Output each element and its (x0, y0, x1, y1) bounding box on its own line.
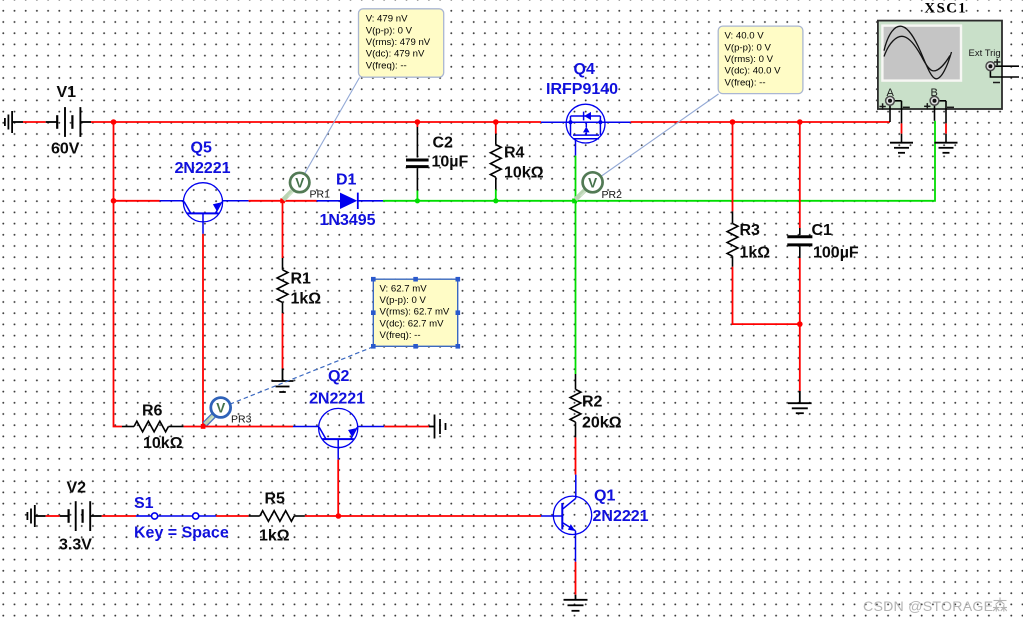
node junction C2 bottom (green) (415, 198, 420, 203)
svg-text:60V: 60V (51, 141, 80, 158)
wire Q4 gate down (green) (575, 156, 577, 201)
wire left vertical to R6 row (114, 201, 123, 427)
svg-text:V(rms): 479 nV: V(rms): 479 nV (366, 37, 431, 48)
svg-text:V2: V2 (67, 480, 87, 497)
wire S1 to R5 (216, 515, 249, 517)
svg-text:100µF: 100µF (813, 245, 859, 262)
transistor Q2 2N2221 (293, 408, 384, 459)
svg-text:Q1: Q1 (594, 488, 615, 505)
svg-text:2N2221: 2N2221 (175, 160, 231, 177)
probe leader line PR2 (601, 94, 719, 177)
svg-text:V: 62.7 mV: V: 62.7 mV (380, 283, 428, 294)
wire Q5 base down to PR3 node (202, 234, 204, 427)
svg-text:R5: R5 (265, 491, 286, 508)
svg-text:20kΩ: 20kΩ (582, 415, 622, 432)
wire PR1 node down to R1 (282, 201, 284, 258)
wire R2 to Q1 collector (575, 437, 577, 474)
node junction R3 top (730, 119, 736, 125)
probe PR3 (selected) (205, 398, 231, 425)
svg-text:C2: C2 (433, 135, 454, 152)
wire left vertical V1 junction down (113, 122, 115, 201)
svg-text:1kΩ: 1kΩ (259, 528, 290, 545)
wire D1 to C2 (green net) (383, 200, 417, 202)
svg-text:XSC1: XSC1 (925, 1, 968, 17)
svg-text:V(freq): --: V(freq): -- (725, 77, 766, 88)
probe leader line PR3 (selected, dashed) (230, 347, 374, 405)
resistor R4 (490, 122, 501, 201)
wire scope B- red segment (945, 123, 947, 133)
ground (scope B-) (935, 143, 958, 153)
svg-text:V(dc): 62.7 mV: V(dc): 62.7 mV (380, 318, 445, 329)
svg-text:Q5: Q5 (191, 140, 212, 157)
resistor R2 (570, 374, 581, 437)
ground (scope A-) (890, 143, 913, 153)
resistor R5 (249, 511, 305, 522)
svg-text:1kΩ: 1kΩ (740, 245, 771, 262)
svg-text:V1: V1 (57, 84, 77, 101)
node junction Q5 collector row (111, 198, 117, 204)
wire scope A- to ground (901, 134, 903, 143)
svg-text:10µF: 10µF (432, 154, 469, 171)
probe info box PR1 (359, 9, 444, 77)
wire V1 ground to V1 (23, 121, 46, 123)
svg-text:V(dc): 40.0 V: V(dc): 40.0 V (725, 66, 782, 77)
svg-text:CSDN @STORAGE: CSDN @STORAGE (863, 599, 993, 615)
svg-text:V(dc): 479 nV: V(dc): 479 nV (366, 49, 425, 60)
wire Q2 right to ground (384, 426, 429, 428)
ground (left of V2, rotated) (27, 505, 45, 527)
node junction V1 top (111, 119, 117, 125)
transistor Q5 2N2221 (160, 183, 249, 234)
wire R3 bottom to C1 column (733, 267, 800, 324)
svg-text:V: V (295, 176, 304, 191)
svg-text:V: V (216, 401, 225, 416)
wire Q2 base down to emitter node (337, 460, 339, 516)
svg-text:PR3: PR3 (231, 414, 252, 426)
switch S1 (136, 513, 216, 519)
wire R6 to PR3 node (184, 426, 203, 428)
wire Q1 base lead (541, 515, 554, 517)
probe PR2 (575, 172, 602, 199)
svg-text:3.3V: 3.3V (59, 537, 92, 554)
wire PR3 node to Q2 (203, 426, 293, 428)
node junction C1 bottom wire (797, 321, 803, 327)
node junction C1 top (797, 119, 803, 125)
svg-text:Ext Trig: Ext Trig (969, 48, 1001, 59)
svg-text:V(rms): 62.7 mV: V(rms): 62.7 mV (380, 307, 450, 318)
wire green PR2 node to scope B (575, 121, 936, 201)
svg-text:R3: R3 (740, 222, 761, 239)
capacitor C2 (406, 122, 429, 201)
wire Q5 emitter to PR1 node (249, 200, 283, 202)
wire scope B- to ground (945, 134, 947, 143)
svg-text:PR2: PR2 (602, 189, 623, 201)
transistor Q4 IRFP9140 (541, 104, 631, 156)
oscilloscope XSC1 (878, 1, 1019, 124)
svg-text:S1: S1 (134, 495, 154, 512)
svg-text:PR1: PR1 (310, 189, 331, 201)
svg-text:V(freq): --: V(freq): -- (380, 330, 421, 341)
wire top rail R4 to Q4 (496, 121, 541, 123)
ground (below C1) (788, 391, 812, 413)
ground (right of Q2, rotated) (429, 415, 446, 439)
diode D1 1N3495 (317, 193, 383, 209)
wire R3 top vertical (732, 122, 734, 211)
wire node to Q1 base (338, 515, 541, 517)
wire C1 top vertical (799, 122, 801, 228)
svg-text:V(p-p): 0 V: V(p-p): 0 V (380, 295, 427, 306)
svg-text:Key = Space: Key = Space (134, 525, 229, 542)
wire top rail C2 to R4 (417, 121, 495, 123)
wire R5 to Q2 emitter node (305, 515, 339, 517)
node junction C2 top (415, 119, 421, 125)
wire Q5 row red left (114, 200, 160, 202)
wire Q1 emitter down (575, 562, 577, 595)
wire R1 to ground (282, 313, 284, 368)
svg-text:V: 479 nV: V: 479 nV (366, 14, 408, 25)
svg-text:V(rms): 0 V: V(rms): 0 V (725, 54, 774, 65)
svg-text:V: 40.0 V: V: 40.0 V (725, 31, 765, 42)
ground (below Q1) (564, 595, 588, 611)
svg-text:1kΩ: 1kΩ (291, 291, 322, 308)
ground (below R1) (272, 369, 294, 393)
battery V2 (60, 501, 102, 531)
svg-text:R2: R2 (582, 394, 603, 411)
node PR1 junction (280, 198, 285, 203)
transistor Q1 2N2221 (553, 475, 591, 562)
svg-text:2N2221: 2N2221 (593, 508, 649, 525)
probe info box PR2 (718, 26, 803, 94)
ground (left of V1, rotated) (5, 111, 23, 133)
resistor R3 (727, 211, 738, 266)
wire top rail V1 to C2 (91, 121, 417, 123)
svg-text:2N2221: 2N2221 (309, 391, 365, 408)
wire green down to R2 (575, 201, 577, 374)
wire green C2 to R4 (417, 200, 495, 202)
svg-text:V(p-p): 0 V: V(p-p): 0 V (366, 25, 413, 36)
svg-text:D1: D1 (336, 172, 357, 189)
svg-text:R1: R1 (291, 271, 312, 288)
node junction Q2 emitter / R5 / Q1 base (336, 513, 342, 519)
wire C1 bottom to ground (799, 258, 801, 391)
svg-text:V: V (588, 176, 597, 191)
wire scope A- red segment (901, 123, 903, 133)
node PR3 junction (201, 424, 206, 429)
wire top rail Q4 to R3 (631, 121, 733, 123)
probe info box PR3 (selected) (371, 277, 460, 349)
svg-text:10kΩ: 10kΩ (504, 165, 544, 182)
svg-text:R6: R6 (142, 403, 163, 420)
wire top rail R3 to C1 (733, 121, 800, 123)
capacitor C1 (787, 228, 812, 258)
wire top rail C1 to scope A (800, 121, 890, 123)
resistor R1 (277, 258, 288, 313)
watermark CJK glyph (993, 598, 1007, 612)
battery V1 (46, 107, 91, 137)
svg-text:V(p-p): 0 V: V(p-p): 0 V (725, 42, 772, 53)
svg-text:10kΩ: 10kΩ (143, 435, 183, 452)
probe PR1 (283, 173, 309, 200)
svg-text:R4: R4 (504, 145, 525, 162)
wire V2 to S1 (102, 515, 136, 517)
resistor R6 (122, 421, 184, 432)
svg-text:Q4: Q4 (574, 61, 595, 78)
node junction R4 top (493, 119, 499, 125)
svg-text:1N3495: 1N3495 (320, 212, 376, 229)
probe leader line PR1 (305, 78, 360, 174)
node PR2 junction (green) (572, 199, 577, 204)
wire PR1 node to D1 (283, 200, 317, 202)
node junction R4 bottom (green) (493, 198, 498, 203)
svg-text:Q2: Q2 (328, 368, 349, 385)
wire V2 ground to V2 (46, 515, 60, 517)
wire green R4 to PR2 node (496, 200, 575, 202)
svg-text:V(freq): --: V(freq): -- (366, 60, 407, 71)
svg-text:IRFP9140: IRFP9140 (546, 81, 618, 98)
svg-text:C1: C1 (812, 222, 833, 239)
